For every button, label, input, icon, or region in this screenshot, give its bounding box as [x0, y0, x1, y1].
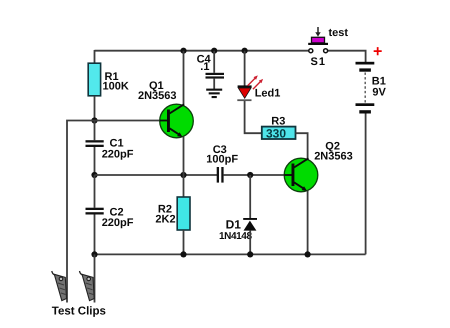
- svg-text:2K2: 2K2: [155, 213, 175, 225]
- wire R3 to Q2 collector: [296, 133, 308, 159]
- wire top rail right segment to battery +: [327, 51, 365, 63]
- test clip 2: [80, 271, 95, 301]
- node junction C4 on top rail: [211, 48, 217, 54]
- wire R1 top lead: [94, 50, 96, 63]
- wire middle rail right: [224, 174, 285, 176]
- node junction Q2 emitter bottom: [305, 251, 311, 257]
- wire C1 top lead: [94, 121, 96, 141]
- node junction D1 / Q2 base: [247, 172, 253, 178]
- node junction base of Q1 / C1 top: [91, 117, 97, 123]
- resistor R1 body: [88, 63, 100, 96]
- wire LED bottom lead to R3: [245, 101, 262, 133]
- wire Q1 collector lead: [183, 51, 185, 106]
- svg-text:2N3563: 2N3563: [138, 90, 177, 102]
- wire C4 to ground: [213, 79, 215, 89]
- svg-text:9V: 9V: [372, 87, 386, 99]
- capacitor C2 plates: [86, 208, 104, 215]
- wire R1 bottom lead: [94, 96, 96, 121]
- transistor Q1: [160, 104, 194, 138]
- wire Q1 base: [95, 120, 169, 122]
- svg-text:D1: D1: [226, 217, 242, 231]
- node junction D1 bottom: [247, 251, 253, 257]
- node junction Q1 collector on top rail: [180, 48, 186, 54]
- node junction C2 bottom: [91, 251, 97, 257]
- wire C2 bottom lead: [94, 215, 96, 255]
- svg-text:+: +: [373, 43, 382, 60]
- wire Q1 emitter lead: [183, 137, 185, 175]
- LED Led1: [237, 85, 251, 101]
- capacitor C4 plates: [206, 73, 225, 79]
- svg-text:Test Clips: Test Clips: [52, 306, 106, 318]
- wire middle rail left: [95, 174, 218, 176]
- svg-text:220pF: 220pF: [102, 148, 134, 160]
- battery B1: [356, 62, 375, 114]
- wire C4 top lead: [213, 51, 215, 73]
- svg-text:B1: B1: [372, 75, 386, 87]
- svg-text:100pF: 100pF: [206, 154, 238, 166]
- node junction LED on top rail: [242, 48, 248, 54]
- wire top rail left segment: [95, 50, 310, 52]
- ground symbol: [206, 89, 222, 99]
- svg-text:330: 330: [266, 126, 286, 140]
- LED light arrows: [248, 75, 264, 89]
- svg-text:Led1: Led1: [255, 88, 281, 100]
- diode D1: [243, 218, 257, 231]
- node junction R2 bottom: [180, 251, 186, 257]
- wire C2 top lead: [94, 175, 96, 208]
- capacitor C1 plates: [86, 140, 104, 147]
- wire LED top lead: [244, 51, 246, 86]
- svg-text:2N3563: 2N3563: [314, 151, 353, 163]
- wire D1 bottom lead: [249, 231, 251, 255]
- wire bottom rail: [95, 253, 366, 255]
- node junction C1/C2 middle rail: [91, 172, 97, 178]
- capacitor C3 plates: [217, 167, 224, 183]
- svg-text:100K: 100K: [103, 81, 129, 93]
- wire Q2 emitter lead: [307, 191, 309, 255]
- wire test clip 2 lead: [94, 254, 96, 302]
- wire C1 bottom lead: [94, 147, 96, 175]
- test clip 1: [52, 271, 67, 301]
- switch S1 push button: [308, 27, 328, 53]
- svg-text:.1: .1: [200, 61, 209, 73]
- svg-text:220pF: 220pF: [102, 217, 134, 229]
- svg-text:S1: S1: [311, 56, 326, 68]
- svg-text:test: test: [329, 27, 349, 39]
- wire battery negative lead: [365, 114, 367, 255]
- wire R2 bottom lead: [183, 230, 185, 254]
- wire D1 top lead: [249, 175, 251, 219]
- resistor R3 body: [262, 127, 296, 139]
- svg-text:1N4148: 1N4148: [219, 231, 252, 242]
- resistor R2 body: [177, 197, 190, 230]
- node junction Q1 emitter / R2: [180, 172, 186, 178]
- wire left branch down to test clip 1: [67, 121, 95, 303]
- transistor Q2: [284, 158, 318, 192]
- wire R2 top lead: [183, 175, 185, 197]
